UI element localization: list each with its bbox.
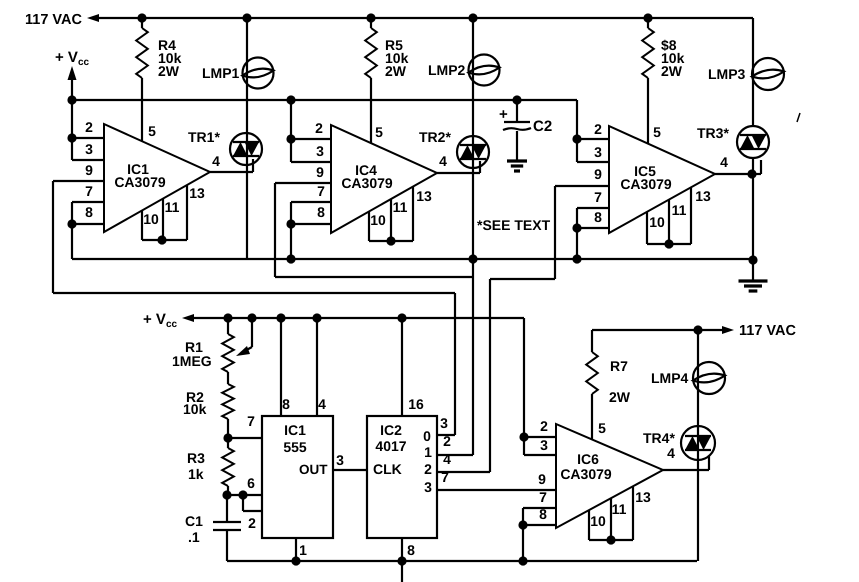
lamp LMP4 (693, 362, 725, 394)
svg-text:R3: R3 (187, 450, 205, 466)
junction lower 117VAC / LMP4 (693, 325, 702, 334)
resistor R4 (141, 18, 143, 28)
svg-text:8: 8 (594, 209, 602, 225)
wire +Vcc upper rail (72, 99, 577, 101)
ground below C2 (507, 159, 527, 162)
svg-text:CA3079: CA3079 (341, 175, 393, 191)
svg-text:1: 1 (424, 444, 432, 460)
junction IC5 pins10-11 bar (664, 239, 673, 248)
svg-text:CA3079: CA3079 (620, 176, 672, 192)
wire 555 pin2 loop (242, 495, 244, 511)
svg-text:7: 7 (85, 183, 93, 199)
junction IC6 pins10-11 bar (606, 535, 615, 544)
junction lower rail / 555 pin8 (276, 313, 285, 322)
svg-text:9: 9 (538, 471, 546, 487)
junction 555 pin1 / bottom rail (291, 556, 300, 565)
junction +Vcc rail / IC1 pins 2-3 (67, 95, 76, 104)
op-amp IC6 triangle (556, 424, 663, 528)
svg-text:*SEE TEXT: *SEE TEXT (477, 217, 551, 233)
wire 4017 pin8 stub below (401, 561, 403, 582)
svg-text:LMP2: LMP2 (428, 62, 466, 78)
svg-text:16: 16 (408, 396, 424, 412)
junction IC1 pins10-11 bar (157, 235, 166, 244)
lamp LMP3 (752, 58, 784, 90)
wire bottom rail (227, 560, 697, 562)
svg-text:2: 2 (424, 461, 432, 477)
junction +Vcc rail / C2 (512, 95, 521, 104)
wire IC1 pins2-3 loop (71, 100, 73, 160)
svg-text:4: 4 (318, 396, 326, 412)
svg-text:C1: C1 (185, 513, 203, 529)
wire IC5 pin3 stub (577, 161, 609, 163)
lamp LMP2 (472, 18, 474, 100)
svg-text:8: 8 (407, 542, 415, 558)
wire 117VAC top rail with left arrow (87, 14, 99, 22)
lamp LMP1 (246, 18, 248, 100)
wire IC4 pin9 route down (274, 183, 276, 277)
svg-text:7: 7 (441, 469, 449, 485)
wire 555 pin8 (280, 318, 282, 416)
svg-text:4: 4 (667, 445, 675, 461)
wire IC1 pins7-8 loop (71, 202, 73, 259)
pot R1 wiper arrow (251, 318, 253, 347)
svg-text:2: 2 (248, 515, 256, 531)
svg-text:13: 13 (416, 188, 432, 204)
wire IC1 pin2 stub (72, 137, 104, 139)
svg-text:10k: 10k (183, 401, 207, 417)
svg-text:8: 8 (85, 204, 93, 220)
wire IC4 pin4 to TR2 gate (437, 172, 480, 174)
resistor R6 ($8) (647, 18, 649, 28)
junction lower rail / 4017 pin16 (397, 313, 406, 322)
junction bus / ground (748, 255, 757, 264)
svg-text:2: 2 (594, 121, 602, 137)
capacitor C2 (516, 100, 518, 122)
wire IC5 pin4 to TR3 (715, 173, 753, 175)
svg-text:6: 6 (247, 475, 255, 491)
svg-text:2W: 2W (385, 63, 407, 79)
triac TR1 (230, 133, 262, 165)
junction top rail / R6 (643, 13, 652, 22)
wire 4017 out0 stub (437, 434, 455, 436)
junction top rail / R5 (366, 13, 375, 22)
svg-text:13: 13 (635, 489, 651, 505)
svg-text:TR3*: TR3* (697, 125, 729, 141)
wire IC5 pin9 route horizontal (490, 278, 555, 280)
wire IC4 pins7-8 loop (290, 202, 292, 259)
svg-text:5: 5 (375, 124, 383, 140)
wire TR3 vertical (752, 158, 754, 281)
junction lower rail / 555 pin4 (312, 313, 321, 322)
junction top rail / R4 (137, 13, 146, 22)
wire IC6 pins7-8 loop (522, 508, 524, 561)
svg-text:8: 8 (539, 506, 547, 522)
svg-text:2: 2 (315, 120, 323, 136)
svg-text:.1: .1 (188, 529, 200, 545)
junction lower rail / R1 wiper (247, 313, 256, 322)
wire 4017 pin8 (401, 538, 403, 561)
triac TR2 (457, 136, 489, 168)
wire IC1 pin9 route down (52, 181, 54, 293)
svg-text:9: 9 (594, 166, 602, 182)
wire TR2 main vertical (472, 100, 474, 455)
wire 555 pin1 (295, 538, 297, 561)
svg-text:5: 5 (148, 123, 156, 139)
wire IC4 pin9 stub (275, 182, 331, 184)
svg-text:11: 11 (612, 501, 627, 517)
counter IC2 4017 box (367, 416, 437, 538)
svg-text:8: 8 (282, 396, 290, 412)
junction 555 pin6/pin2 branch (238, 490, 247, 499)
wire IC4 pin10-11-13 bar (368, 212, 370, 241)
junction 4017 pin8 / bottom rail (397, 556, 406, 565)
svg-text:IC1: IC1 (284, 422, 306, 438)
svg-text:CLK: CLK (373, 461, 402, 477)
svg-text:+: + (499, 106, 508, 123)
junction R2/R3/555 pin7 (223, 433, 232, 442)
svg-text:5: 5 (598, 420, 606, 436)
svg-text:3: 3 (440, 415, 448, 431)
svg-text:IC2: IC2 (380, 422, 402, 438)
wire IC1 pin9 route horizontal (53, 292, 455, 294)
wire IC5 pin2 stub (577, 138, 609, 140)
triac TR4 (681, 426, 715, 460)
wire IC1 pin9 route to 4017 out0 (454, 293, 456, 435)
svg-text:5: 5 (653, 124, 661, 140)
junction +Vcc rail / IC4 pins 2-3 (286, 95, 295, 104)
svg-text:11: 11 (393, 199, 408, 215)
junction bus / TR2 (468, 254, 477, 263)
svg-text:9: 9 (85, 162, 93, 178)
wire 555 pin6 (227, 494, 262, 496)
svg-text:7: 7 (594, 189, 602, 205)
junction lower rail / R1 (223, 313, 232, 322)
svg-text:CA3079: CA3079 (114, 174, 166, 190)
wire +Vcc rail corner to IC6 pins2-3 (523, 318, 525, 437)
svg-text:4: 4 (720, 154, 728, 170)
svg-text:8: 8 (317, 204, 325, 220)
op-amp IC1 triangle (104, 124, 210, 232)
junction R3/C1/pin6 (222, 490, 231, 499)
op-amp IC4 triangle (331, 125, 437, 233)
svg-text:4017: 4017 (375, 438, 406, 454)
stray tick mark (797, 113, 800, 122)
svg-text:2: 2 (443, 433, 451, 449)
svg-text:4: 4 (439, 153, 447, 169)
junction bus / IC4 (286, 254, 295, 263)
junction IC1 pin2 (67, 133, 76, 142)
wire IC5 pin9 stub (555, 185, 609, 187)
svg-text:10: 10 (590, 513, 606, 529)
wire 555 pin4 (316, 318, 318, 416)
svg-text:9: 9 (316, 164, 324, 180)
svg-text:2: 2 (540, 418, 548, 434)
wire IC5 pin9 route to 4017 out2 (489, 279, 491, 472)
wire 555 pin7 (228, 437, 262, 439)
svg-text:7: 7 (317, 183, 325, 199)
svg-text:10: 10 (370, 212, 386, 228)
wire IC1 pin9 stub (53, 180, 104, 182)
wire +Vcc up arrow (68, 66, 77, 80)
timer IC1 555 box (262, 416, 333, 538)
svg-text:TR2*: TR2* (419, 129, 451, 145)
wire +Vcc lower rail with arrow (182, 314, 194, 322)
svg-text:C2: C2 (533, 118, 552, 135)
junction bus / IC5 (572, 254, 581, 263)
capacitor C1 (226, 495, 228, 522)
wire TR1 main vertical (246, 100, 248, 259)
svg-text:4: 4 (443, 451, 451, 467)
svg-text:IC6: IC6 (577, 451, 599, 467)
wire IC4 pin7 stub (291, 201, 331, 203)
junction top rail / LMP2 (468, 13, 477, 22)
wire IC6 pin3 loop (523, 437, 525, 455)
svg-text:10: 10 (143, 211, 159, 227)
svg-text:117 VAC: 117 VAC (25, 12, 82, 28)
svg-text:2W: 2W (158, 63, 180, 79)
svg-text:0: 0 (423, 428, 431, 444)
svg-text:2: 2 (85, 119, 93, 135)
resistor R3 (227, 438, 229, 448)
svg-text:LMP3: LMP3 (708, 66, 746, 82)
wire 4017 out3 stub to IC6 pin9 (437, 489, 556, 491)
wire IC6 pin10-11-13 bar (588, 510, 590, 540)
junction top rail / LMP1 (242, 13, 251, 22)
junction IC1 pin8 (67, 219, 76, 228)
triac TR3 (737, 126, 769, 158)
svg-text:TR4*: TR4* (643, 430, 675, 446)
svg-text:3: 3 (336, 452, 344, 468)
svg-text:10: 10 (649, 214, 665, 230)
svg-text:2W: 2W (609, 389, 631, 405)
wire 117VAC lower rail (592, 329, 698, 331)
svg-text:7: 7 (539, 489, 547, 505)
wire IC1 pin7 stub (72, 201, 104, 203)
wire IC5 pin9 route down (554, 186, 556, 279)
resistor R2 (222, 384, 234, 419)
junction IC6 pin8 (518, 520, 527, 529)
junction IC5 pin2 (572, 134, 581, 143)
junction IC5 pin8 (572, 223, 581, 232)
wire IC4 pin9 route horizontal (275, 276, 473, 278)
svg-text:3: 3 (316, 143, 324, 159)
svg-text:3: 3 (594, 144, 602, 160)
svg-text:3: 3 (540, 437, 548, 453)
wire IC1 pin4 to TR1 gate (210, 171, 253, 173)
wire IC5 pins7-8 loop (576, 208, 578, 259)
svg-text:1k: 1k (188, 466, 204, 482)
junction bottom rail / IC6 pins7-8 (518, 556, 527, 565)
svg-text:13: 13 (189, 185, 205, 201)
wire IC4 pins2-3 loop (290, 100, 292, 162)
wire IC6 pin4 to TR4 gate (663, 469, 709, 471)
svg-text:117 VAC: 117 VAC (739, 323, 796, 339)
wire 4017 pin16 (401, 318, 403, 416)
wire 4017 out2 stub (437, 471, 490, 473)
svg-text:555: 555 (283, 439, 307, 455)
junction IC6 pin2 (519, 432, 528, 441)
svg-text:OUT: OUT (299, 462, 328, 477)
resistor R7 (591, 330, 593, 352)
wire 555 pin3 to 4017 CLK (333, 469, 367, 471)
wire neutral bus (72, 258, 753, 260)
svg-text:LMP1: LMP1 (202, 65, 240, 81)
wire IC1 pin10-11-13 bar (141, 211, 143, 240)
svg-text:11: 11 (165, 199, 180, 215)
wire IC5 pin10-11-13 bar (646, 212, 648, 244)
svg-text:2W: 2W (661, 63, 683, 79)
resistor R5 (370, 18, 372, 28)
wire TR4 vertical (697, 330, 699, 561)
wire 4017 out1 stub (437, 454, 473, 456)
svg-text:4: 4 (212, 153, 220, 169)
junction IC4 pin8 (286, 219, 295, 228)
junction IC4 pin2 (286, 134, 295, 143)
junction IC5 pin4 / TR3 (747, 169, 756, 178)
junction IC4 pins10-11 bar (386, 236, 395, 245)
svg-text:13: 13 (695, 188, 711, 204)
wire +Vcc rail corner to IC5 pins 2-3 (576, 100, 578, 162)
svg-text:3: 3 (424, 479, 432, 495)
op-amp IC5 triangle (609, 126, 715, 233)
svg-text:7: 7 (247, 413, 255, 429)
svg-text:LMP4: LMP4 (651, 370, 689, 386)
svg-text:11: 11 (672, 202, 687, 218)
wire TR3 gate step (752, 173, 761, 175)
svg-text:3: 3 (85, 141, 93, 157)
resistor R1 (pot) (227, 318, 229, 334)
wire IC6 pin2 stub (524, 436, 556, 438)
wire IC5 pin7 stub (577, 207, 609, 209)
ground (main, below TR3) (739, 279, 768, 282)
svg-text:1MEG: 1MEG (172, 353, 212, 369)
svg-text:1: 1 (299, 542, 307, 558)
svg-text:R7: R7 (610, 358, 628, 374)
wire IC6 pin7 stub (523, 507, 556, 509)
svg-text:TR1*: TR1* (188, 129, 220, 145)
svg-text:CA3079: CA3079 (560, 466, 612, 482)
wire IC4 pin2 stub (291, 138, 331, 140)
wire top rail right corner down (752, 18, 754, 126)
